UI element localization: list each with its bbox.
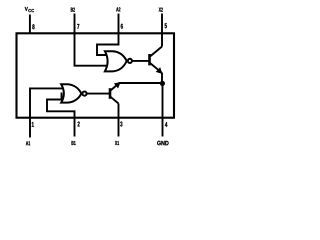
wire: Q1 emitter to junction bbox=[119, 82, 163, 84]
Q2 emitter arrowhead bbox=[156, 67, 163, 74]
label X2 bbox=[159, 8, 163, 12]
pin number 7 bbox=[77, 24, 79, 29]
pin number 4 bbox=[165, 122, 167, 127]
label X1 bbox=[115, 141, 119, 145]
pin 3 X1 stub up to Q1 collector bbox=[118, 104, 120, 137]
pin number 5 bbox=[165, 23, 167, 28]
label B1 bbox=[72, 141, 76, 145]
pin number 6 bbox=[121, 24, 123, 29]
pin 7 B2 stub and wire to gate U2 lower input bbox=[75, 14, 107, 66]
pin number 8 bbox=[32, 24, 34, 29]
wire: gate U2 output to Q2 base bbox=[132, 60, 149, 62]
pin 6 A2 stub and stepped wire to gate U2 upper input bbox=[97, 14, 119, 56]
junction node: emitters to GND bbox=[160, 81, 165, 86]
label B2 bbox=[71, 8, 75, 12]
pin 8 Vcc stub bbox=[29, 15, 31, 34]
NOR gate U2 bbox=[105, 51, 132, 71]
label GND bbox=[157, 141, 168, 145]
wire: Q2 emitter down to junction bbox=[161, 73, 163, 84]
label A2 bbox=[116, 7, 120, 11]
NOR gate U1 bbox=[61, 84, 86, 102]
pin 2 B1 stub and stepped wire to gate U1 lower input bbox=[47, 93, 75, 137]
pin 1 A1 stub and wire to gate U1 upper input bbox=[30, 88, 63, 137]
transistor Q1 bbox=[110, 85, 119, 104]
pin 5 X2 stub down to Q2 collector bbox=[161, 14, 163, 47]
transistor Q2 bbox=[150, 47, 163, 73]
wire: gate U1 output to Q1 base bbox=[87, 93, 109, 95]
label A1 bbox=[26, 141, 30, 145]
pin number 3 bbox=[120, 122, 122, 127]
IC package outline bbox=[17, 33, 175, 117]
label Vcc bbox=[25, 7, 34, 12]
pin number 1 bbox=[32, 122, 34, 127]
pin number 2 bbox=[78, 122, 80, 127]
pin 4 GND stub up to emitter junction bbox=[162, 84, 164, 137]
Q1 emitter arrowhead bbox=[114, 82, 121, 88]
